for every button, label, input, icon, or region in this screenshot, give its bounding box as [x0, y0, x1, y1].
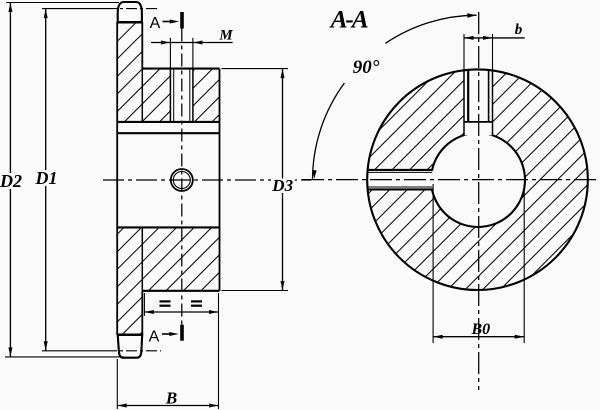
svg-text:D1: D1: [35, 168, 58, 188]
9 o'clock tapped hole outer line top: [367, 169, 433, 171]
keyway wall right: [492, 70, 494, 135]
right view vertical centerline: [478, 12, 480, 390]
tooth base line bottom: [117, 334, 142, 336]
radial tapped hole seen end-on (double circle): [171, 169, 193, 191]
plate right face (above hub): [141, 22, 143, 69]
svg-text:b: b: [515, 22, 523, 38]
tapped hole thread line right: [488, 70, 490, 122]
bore bottom line: [117, 226, 219, 228]
keyway top surface line: [464, 121, 493, 123]
svg-text:A-A: A-A: [329, 5, 368, 34]
plate left face: [116, 22, 118, 335]
D2 bottom extension line: [5, 356, 124, 358]
hub top edge: [142, 68, 219, 70]
white of tapped hole slot M in hub (side view): [170, 68, 193, 123]
bottom tooth: [118, 335, 143, 358]
plate-hub joint line upper: [141, 69, 143, 122]
b dimension: [463, 34, 465, 71]
B0 dimension: [432, 184, 434, 343]
90 degree arc: [313, 83, 345, 180]
bore top line: [117, 132, 219, 134]
hatched hub disc: [367, 69, 588, 290]
D2 label: [0, 173, 23, 189]
M dimension: [169, 38, 171, 69]
svg-text:A: A: [150, 15, 161, 32]
equal sign right: [191, 300, 202, 302]
hub right face: [219, 69, 221, 291]
svg-text:M: M: [218, 28, 233, 44]
svg-text:D2: D2: [0, 171, 22, 191]
svg-text:B0: B0: [470, 321, 490, 338]
symmetric (=) dimension under hub: [143, 293, 145, 316]
9 o'clock tapped hole outer line bottom: [367, 188, 433, 190]
vertical A-A cut centerline: [181, 29, 183, 325]
tapped hole slot at 9 o'clock white: [366, 171, 434, 189]
hatched upper block (plate + hub above bore): [117, 22, 219, 122]
hub bottom edge: [142, 290, 219, 292]
9 o'clock tapped hole core line top: [367, 171, 432, 173]
D1 top extension line (pitch line): [42, 8, 106, 10]
plate right face (below hub): [141, 291, 143, 335]
keyway wall left: [463, 70, 465, 135]
tapped hole thread line left (thick): [467, 70, 469, 122]
D3 label: [271, 179, 295, 194]
bore: [431, 133, 525, 227]
D1 dimension line: [45, 9, 47, 351]
hatched lower block (below bore): [117, 227, 219, 335]
svg-text:D3: D3: [271, 176, 293, 195]
svg-text:90°: 90°: [353, 57, 380, 78]
tapped hole M outer wall left: [169, 69, 171, 122]
hub outer circle: [367, 69, 588, 290]
D2 dimension line: [9, 3, 11, 357]
plate-hub joint line lower: [141, 227, 143, 290]
D1 label: [35, 170, 58, 186]
D3 extension lines: [222, 68, 289, 70]
right view horizontal centerline: [302, 179, 600, 181]
tooth base line top: [117, 21, 142, 23]
D1 bottom extension line (pitch line): [42, 350, 106, 352]
keyway + tapped hole slot white: [464, 69, 493, 135]
tapped hole M thread core line right: [189, 69, 191, 122]
tapped hole M thread core line left: [173, 69, 175, 122]
keyway top line: [117, 121, 219, 123]
B dimension: [116, 359, 118, 409]
top tooth: [118, 2, 142, 23]
equal sign left: [160, 300, 171, 302]
D3 dimension line: [282, 69, 284, 291]
9 o'clock tapped hole core line bottom: [367, 186, 432, 188]
D2 top extension line: [6, 2, 119, 4]
horizontal centerline left view: [103, 179, 311, 181]
tapped hole M outer wall right: [192, 69, 194, 122]
svg-text:A: A: [149, 328, 160, 345]
svg-text:B: B: [165, 389, 177, 408]
